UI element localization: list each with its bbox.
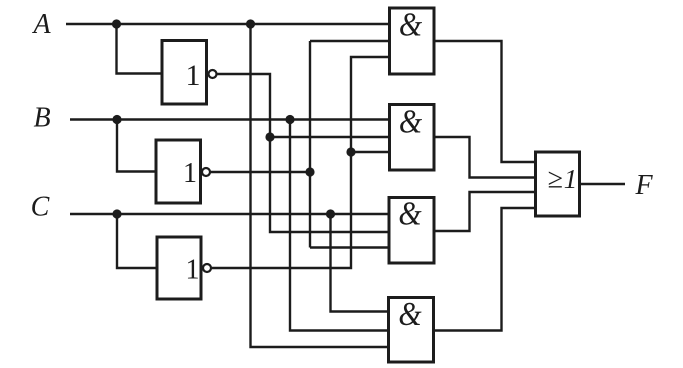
wire OR output to F [580,183,626,185]
wire input B horizontal [70,118,390,120]
junction node B-AND4 [285,115,294,124]
svg-text:&: & [399,102,422,140]
junction node A-AND4 [246,19,255,28]
wire NOT-C output to AND1 [212,57,390,268]
AND gate G6 box [389,198,434,264]
wire NOT-B vertical [309,41,311,248]
wire C branch to NOT3 [117,214,157,268]
wire AND2 output to OR [434,137,536,178]
OR gate G8 box [536,152,580,216]
junction node C-NOT3 [112,209,121,218]
wire B branch to NOT2 [117,120,156,172]
svg-text:A: A [31,9,51,40]
inverter G3 box [157,237,201,299]
wire A branch to NOT1 [117,24,163,74]
wire NOT-B to AND3 [310,246,389,248]
wire NOT-B to AND1 [310,40,390,42]
wire AND4 output to OR [434,208,536,331]
svg-text:1: 1 [183,158,197,189]
svg-text:1: 1 [564,164,578,194]
wire A branch down to AND4 [251,24,389,347]
svg-text:C: C [31,192,50,223]
junction node C-AND4 [326,209,335,218]
svg-text:&: & [399,5,422,43]
wire B branch down to AND4 [290,120,389,331]
svg-text:B: B [33,103,50,134]
AND gate G7 box [389,298,434,363]
AND gate G4 box [390,8,435,74]
inverter G3 bubble [203,264,211,272]
wire input A horizontal [66,23,390,25]
wire C branch down to AND4 [331,214,389,312]
inverter G2 box [156,140,201,203]
svg-text:&: & [398,194,421,232]
junction node NOTC-AND2 [346,147,355,156]
svg-text:≥: ≥ [547,164,562,195]
junction node A-NOT1 [112,19,121,28]
junction node B-NOT2 [112,115,121,124]
wire NOT-A branch to AND2 [270,136,390,138]
wire input C horizontal [70,213,389,215]
wire NOT-C branch to AND2 [351,151,390,153]
svg-text:&: & [398,294,421,332]
wire AND1 output to OR [434,41,536,162]
wire NOT-B output stub [211,171,310,173]
svg-text:1: 1 [186,59,201,92]
wire AND3 output to OR [434,192,536,231]
inverter G2 bubble [202,168,210,176]
svg-text:1: 1 [186,255,200,286]
inverter G1 box [162,41,207,105]
AND gate G5 box [390,105,435,171]
junction node NOTB-tee [305,167,314,176]
wire NOT-A output to AND3 [217,74,389,232]
svg-text:F: F [634,170,653,201]
junction node NOTA-AND2 [265,132,274,141]
inverter G1 bubble [209,70,217,78]
